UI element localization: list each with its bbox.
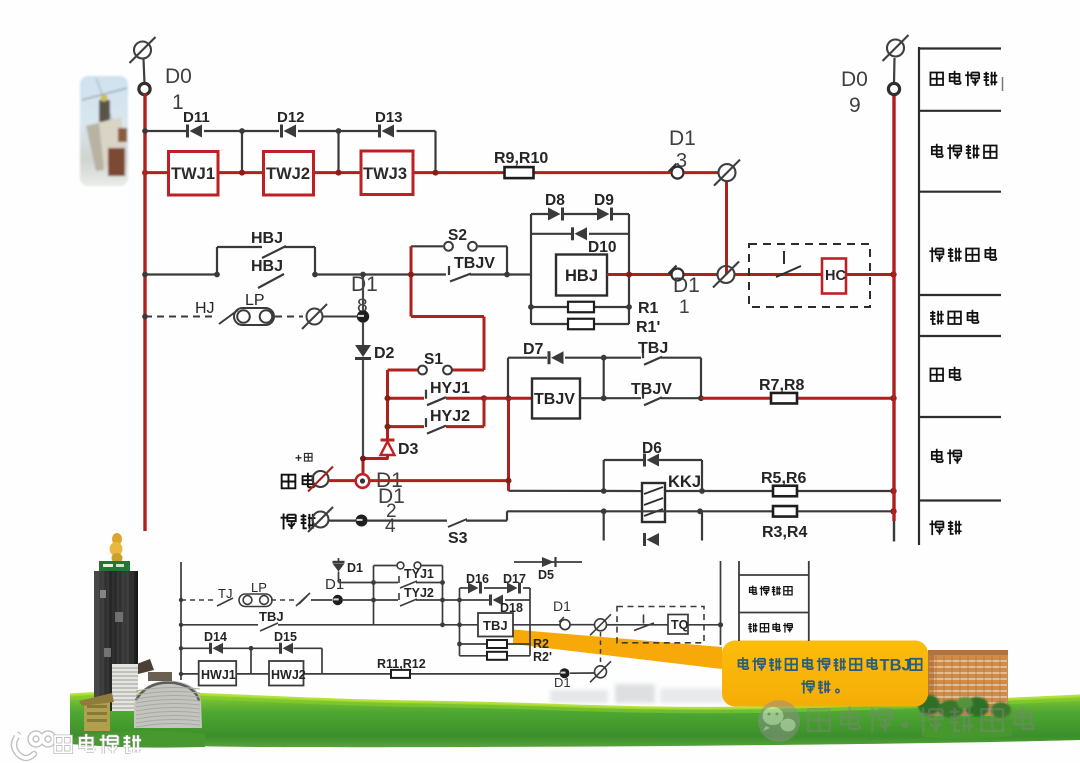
wire: TJ row to node	[311, 599, 332, 601]
svg-text:D1: D1	[673, 274, 700, 297]
wire: shouhe black row to bus	[509, 490, 643, 492]
relay box TWJ2	[264, 152, 314, 196]
terminal D0/9	[888, 83, 899, 94]
svg-text:TWJ1: TWJ1	[171, 165, 215, 183]
wire: TWJ2-D12 link	[337, 131, 339, 173]
svg-text:D0: D0	[841, 68, 868, 91]
watermark: dashukuajing text	[55, 734, 141, 754]
terminal slash bottom rail	[595, 666, 607, 678]
svg-text:TBJ: TBJ	[880, 657, 911, 675]
svg-text:1: 1	[679, 297, 690, 318]
relay box TBJV	[484, 397, 532, 400]
switch S1 branch	[388, 369, 418, 372]
watermark: gongzhonghao text	[808, 706, 1033, 732]
diode D11	[186, 125, 189, 138]
junction dots right bus	[890, 271, 896, 277]
label +dian	[304, 453, 312, 461]
diode D13	[378, 125, 381, 138]
svg-text:HC: HC	[825, 268, 846, 284]
diode D10 branch	[531, 233, 571, 235]
svg-text:HBJ: HBJ	[251, 258, 283, 275]
relay box TWJ3	[361, 151, 413, 195]
terminal slash D1/3	[719, 164, 736, 181]
svg-text:D1: D1	[325, 576, 344, 593]
svg-text:D3: D3	[398, 441, 419, 458]
svg-text:TBJV: TBJV	[454, 255, 495, 272]
contact HBJ upper	[262, 246, 286, 258]
svg-text:R7,R8: R7,R8	[759, 377, 804, 394]
resistor R5,R6	[773, 486, 797, 497]
photo: orange building (bottom-right)	[928, 650, 1008, 718]
watermark: dashukuajing logo	[14, 734, 54, 759]
svg-text:R1': R1'	[636, 319, 660, 336]
callout text line1	[738, 657, 748, 669]
callout pointer wedge	[513, 630, 722, 670]
KKJ lower diode branch (cut off)	[603, 511, 605, 540]
diode D14	[209, 643, 212, 654]
resistor R2p branch	[460, 655, 488, 657]
diode D1 (bottom)	[333, 564, 345, 572]
wire: D11 diode row	[145, 130, 186, 132]
contact inside HC box	[783, 251, 785, 264]
svg-text:TBJ: TBJ	[638, 340, 668, 357]
svg-text:R3,R4: R3,R4	[762, 524, 807, 541]
relay box HWJ1	[199, 661, 237, 686]
mini table labels	[750, 585, 757, 594]
switch S2 branch	[411, 245, 443, 247]
diode D12	[280, 125, 283, 138]
wire: fangtiao red row to bus	[701, 397, 771, 400]
wire: TBJ coil row	[460, 624, 479, 626]
wire: HBJ main row	[145, 273, 217, 275]
node D1 before TQ	[560, 620, 570, 630]
svg-text:D9: D9	[594, 192, 614, 209]
terminal slash shouhe	[313, 471, 329, 487]
resistor R3,R4	[773, 506, 797, 517]
svg-text:D11: D11	[183, 109, 210, 126]
svg-text:TBJV: TBJV	[631, 381, 672, 398]
relay box HC	[822, 259, 846, 294]
svg-text:TQ: TQ	[671, 618, 689, 632]
svg-text:+: +	[295, 451, 302, 465]
wire: D13 drop to TWJ row	[434, 131, 436, 173]
dashed box HC	[749, 244, 870, 307]
svg-text:S3: S3	[448, 530, 468, 547]
wire: shoutiao step up and row to bus	[506, 511, 508, 520]
relay box HBJ	[556, 255, 607, 296]
svg-text:TBJV: TBJV	[534, 391, 575, 408]
contact HJ	[219, 310, 238, 324]
wire: HWJ row	[181, 673, 199, 675]
svg-text:R2: R2	[533, 637, 549, 651]
wire: red drop from D1/3 to HC row	[725, 182, 728, 275]
wire: red riser S2 to HJ row	[410, 246, 413, 316]
svg-text:3: 3	[676, 150, 687, 172]
terminal slash on HJ row	[307, 309, 323, 325]
relay box TQ	[668, 615, 688, 635]
wire: TBJ contact row	[181, 624, 258, 626]
diode D8 D9 branch	[531, 213, 548, 215]
wire: bottom-right bus	[720, 561, 722, 645]
contact S3	[448, 519, 467, 527]
diode D5 stub	[514, 561, 582, 563]
svg-text:D12: D12	[277, 109, 305, 126]
svg-text:D17: D17	[503, 572, 526, 586]
wire: shouhe red row	[370, 479, 509, 482]
svg-text:R5,R6: R5,R6	[761, 470, 806, 487]
svg-text:R1: R1	[638, 300, 659, 317]
wire: HJ dashed row	[145, 316, 216, 318]
callout text line2	[801, 680, 814, 693]
node D1/4	[356, 515, 368, 527]
diodes D16 D17 branch	[460, 587, 469, 589]
switch branch (top of TYJ ladder)	[374, 565, 397, 567]
resistor R9,R10	[505, 167, 534, 178]
photo: skyscraper cluster (bottom-left)	[79, 533, 202, 731]
svg-text:9: 9	[849, 94, 861, 117]
node D1 (bottom, on TJ row)	[333, 595, 343, 605]
svg-text:LP: LP	[245, 292, 265, 309]
wire: vertical through D1/8 down to D2	[362, 275, 364, 311]
svg-text:D15: D15	[274, 630, 297, 644]
node D1/1	[672, 269, 684, 281]
svg-text:HJ: HJ	[195, 300, 215, 317]
mini table (bottom right)	[738, 561, 740, 641]
wire: bottom-left bus	[180, 562, 182, 680]
diode D7 / contact TBJ branch	[507, 358, 509, 399]
wire: HJ row to node D1/8	[323, 316, 358, 318]
svg-text:D5: D5	[538, 568, 554, 582]
relay box HWJ2	[269, 661, 304, 686]
photo: distant gray skyline strip	[550, 684, 930, 703]
wire through TQ box	[617, 624, 668, 626]
photo: trees at right building base	[918, 695, 1011, 718]
photo: bucket-truck thumbnail (top-left)	[80, 76, 128, 186]
wire: TWJ red row	[145, 171, 169, 174]
svg-text:D1: D1	[347, 561, 363, 575]
resistor R1 branch	[531, 306, 568, 308]
HBJ coil block with D8 D9 D10 R1 R1p	[530, 214, 532, 324]
svg-text:D1: D1	[553, 598, 571, 614]
wire: red HJ row to S1 drop	[411, 315, 484, 318]
slash terminal on TJ row	[296, 593, 310, 606]
svg-text:D6: D6	[642, 440, 662, 457]
dashed box TQ	[617, 607, 704, 643]
contact HYJ2 branch	[388, 425, 425, 428]
contact TBJV (fangtiao row)	[642, 390, 644, 399]
grass band	[70, 693, 1080, 747]
TBJ coil block (bottom)	[459, 588, 461, 656]
svg-text:1: 1	[172, 91, 184, 114]
wire: shoutiao row	[329, 519, 356, 521]
wire: TBJV to contact	[580, 397, 641, 399]
svg-text:TBJ: TBJ	[259, 609, 284, 624]
wire: stem below top-left fuse	[144, 59, 145, 83]
svg-text:TJ: TJ	[218, 586, 232, 601]
svg-text:HBJ: HBJ	[565, 267, 598, 285]
contact TBJV on main row	[448, 266, 450, 275]
diode D6 branch	[603, 460, 605, 491]
wire: red from HBJ coil to bus	[607, 273, 671, 276]
relay coil KKJ	[642, 483, 665, 522]
function table (right)	[918, 47, 920, 545]
svg-text:S2: S2	[448, 227, 467, 244]
svg-text:TWJ2: TWJ2	[266, 165, 310, 183]
dashed drop to bottom rail	[600, 632, 602, 665]
wire: left red bus	[143, 93, 146, 531]
svg-text:D1: D1	[669, 127, 696, 150]
svg-text:HWJ1: HWJ1	[201, 668, 236, 682]
grass highlight edge	[70, 693, 1080, 709]
resistor R7,R8	[771, 393, 797, 404]
grass foreground at building feet	[70, 731, 205, 748]
wire: TWJ1-D11 link	[241, 131, 243, 173]
terminal slash before TQ	[595, 619, 607, 631]
svg-text:4: 4	[385, 516, 396, 537]
cursor artifact row1	[1002, 77, 1004, 91]
watermark wechat icon	[758, 700, 800, 742]
contact HBJ lower	[258, 274, 284, 288]
contact TJ	[217, 598, 233, 606]
svg-text:R11,R12: R11,R12	[377, 657, 426, 671]
red branch: S1 / HYJ1 / HYJ2 ladder	[386, 370, 389, 440]
TYJ ladder	[373, 566, 375, 625]
node D1/8	[357, 310, 369, 322]
resistor R11,R12	[391, 670, 410, 678]
contact TYJ2 on TJ row	[374, 599, 399, 601]
svg-text:HYJ1: HYJ1	[430, 380, 470, 397]
node D1 on bottom rail	[560, 668, 570, 678]
wire: D14 D15 row	[181, 647, 209, 649]
svg-text:R2': R2'	[533, 650, 552, 664]
svg-text:D1: D1	[554, 675, 571, 690]
resistor R1p branch	[531, 323, 568, 325]
relay box TBJ	[478, 613, 513, 637]
svg-text:LP: LP	[251, 580, 267, 595]
wire: red riser fangtiao to shouhe	[507, 398, 510, 491]
terminal fuse symbol top-right	[887, 40, 904, 57]
wire: node to TYJ ladder	[343, 599, 374, 601]
svg-text:D7: D7	[523, 341, 544, 358]
svg-text:D16: D16	[466, 572, 489, 586]
contact HYJ1 branch	[388, 397, 425, 400]
svg-text:TYJ2: TYJ2	[404, 586, 434, 600]
diode D2	[355, 345, 371, 357]
svg-text:HYJ2: HYJ2	[430, 408, 470, 425]
contact group HBJ (parallel pair)	[216, 247, 218, 275]
junction dots on diode row	[239, 128, 245, 134]
contact TYJ1 branch	[374, 582, 399, 584]
wire: stem below top-right fuse	[893, 58, 896, 83]
svg-text:D0: D0	[165, 65, 192, 88]
terminal slash D1/1	[718, 266, 735, 283]
terminal D0/1	[139, 83, 150, 94]
diode D3 (red, up)	[381, 442, 395, 456]
wire: D1 branch to TYJ ladder	[339, 582, 374, 584]
table labels	[930, 72, 943, 85]
link LP	[234, 308, 274, 325]
contact TBJ	[642, 349, 644, 358]
resistor R2 branch	[460, 643, 488, 645]
junction dots TWJ row	[142, 170, 148, 176]
svg-text:S1: S1	[424, 351, 443, 368]
svg-text:HBJ: HBJ	[251, 230, 283, 247]
wire: right red bus	[892, 93, 895, 521]
label shouhe (manual close)	[282, 475, 296, 489]
svg-text:HWJ2: HWJ2	[271, 668, 306, 682]
node D1/2 (red ring)	[329, 479, 356, 482]
link LP (bottom)	[239, 594, 272, 607]
label shoutiao (manual trip)	[281, 514, 296, 530]
svg-text:R9,R10: R9,R10	[494, 150, 548, 167]
svg-text:TYJ1: TYJ1	[404, 567, 434, 581]
wire: TJ dashed row	[181, 599, 214, 601]
svg-text:TWJ3: TWJ3	[363, 165, 407, 183]
callout bubble	[722, 641, 928, 707]
svg-text:D2: D2	[374, 345, 395, 362]
svg-text:TBJ: TBJ	[483, 618, 508, 633]
contact TBJ (bottom row)	[260, 623, 278, 631]
terminal slash shoutiao	[313, 512, 329, 528]
relay box TWJ1	[169, 152, 219, 196]
wire: TJ row continues into TBJ block	[443, 599, 460, 601]
svg-text:KKJ: KKJ	[668, 473, 701, 491]
svg-text:D13: D13	[375, 109, 403, 126]
wire: red elbow D3 to SH node	[386, 455, 389, 459]
diode D15	[279, 643, 282, 654]
terminal fuse symbol top-left	[134, 42, 151, 59]
diode D18 branch	[460, 599, 490, 601]
contact inside TQ box	[643, 615, 645, 624]
svg-text:D8: D8	[545, 192, 565, 209]
svg-text:D14: D14	[204, 630, 227, 644]
node D1/3	[672, 167, 684, 179]
